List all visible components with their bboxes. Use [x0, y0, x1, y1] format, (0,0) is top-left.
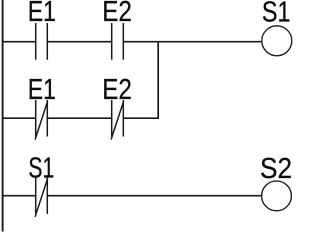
svg-text:S1: S1	[262, 0, 291, 28]
wire rung 2: E1 to E2	[47, 117, 111, 119]
wire rung 2: rail to contact E1	[2, 117, 36, 119]
contact E2 (NO, rung 1)	[112, 23, 124, 60]
contact E1 (NO, rung 1)	[36, 23, 48, 60]
wire rung 3: S1 to coil S2	[47, 195, 261, 197]
svg-text:S2: S2	[260, 153, 292, 185]
svg-text:S1: S1	[28, 152, 54, 184]
wire rung 1: E1 to E2	[47, 41, 111, 43]
wire rung 3: rail to contact S1	[2, 195, 36, 197]
wire rung 1: rail to contact E1	[2, 41, 36, 43]
contact E1 (NC, rung 2)	[35, 100, 48, 140]
contact E2 (NC, rung 2)	[111, 100, 124, 140]
svg-text:E1: E1	[28, 0, 56, 28]
wire rung 2: E2 to branch	[123, 117, 159, 119]
coil S2	[262, 181, 292, 211]
coil S1	[262, 26, 292, 56]
wire rung 1: E2 to coil S1	[123, 41, 261, 43]
svg-text:E2: E2	[102, 74, 132, 106]
svg-text:E2: E2	[102, 0, 132, 28]
left power rail	[2, 0, 4, 232]
branch wire: vertical joining rung 2 to rung 1	[157, 42, 159, 119]
svg-text:E1: E1	[28, 74, 56, 106]
contact S1 (NC, rung 3)	[35, 177, 48, 216]
